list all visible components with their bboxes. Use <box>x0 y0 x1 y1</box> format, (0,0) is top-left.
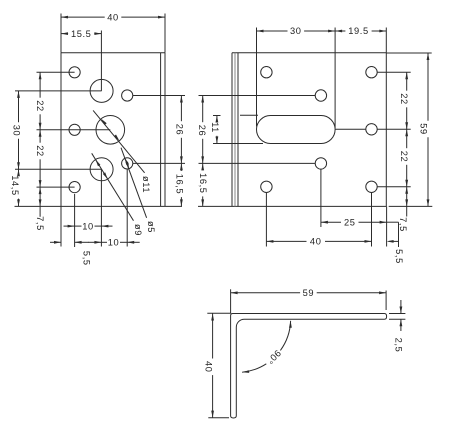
svg-text:10: 10 <box>108 237 120 247</box>
svg-text:59: 59 <box>303 288 315 298</box>
svg-text:15.5: 15.5 <box>71 29 92 39</box>
svg-text:ø5: ø5 <box>146 221 156 233</box>
svg-text:7,5: 7,5 <box>398 217 408 232</box>
svg-text:5,5: 5,5 <box>82 251 92 266</box>
svg-text:26: 26 <box>175 124 185 136</box>
svg-text:11: 11 <box>210 122 220 133</box>
svg-text:22: 22 <box>399 151 409 163</box>
svg-text:ø11: ø11 <box>141 176 151 193</box>
svg-text:22: 22 <box>35 145 45 157</box>
svg-text:59: 59 <box>418 123 428 135</box>
svg-text:14,5: 14,5 <box>10 175 20 196</box>
svg-text:22: 22 <box>399 93 409 105</box>
svg-text:16,5: 16,5 <box>175 174 185 195</box>
svg-text:25: 25 <box>344 217 356 227</box>
svg-text:2,5: 2,5 <box>393 338 403 353</box>
svg-text:16,5: 16,5 <box>198 173 208 194</box>
svg-text:22: 22 <box>35 100 45 112</box>
svg-text:7,5: 7,5 <box>35 216 45 231</box>
svg-text:19.5: 19.5 <box>348 26 369 36</box>
svg-text:10: 10 <box>82 221 94 231</box>
svg-text:30: 30 <box>290 26 302 36</box>
svg-text:40: 40 <box>107 12 119 22</box>
svg-text:30: 30 <box>12 125 22 137</box>
svg-text:5,5: 5,5 <box>394 249 404 264</box>
svg-text:40: 40 <box>310 237 322 247</box>
svg-text:26: 26 <box>197 125 207 137</box>
svg-text:40: 40 <box>203 361 213 373</box>
svg-text:ø9: ø9 <box>133 224 143 236</box>
